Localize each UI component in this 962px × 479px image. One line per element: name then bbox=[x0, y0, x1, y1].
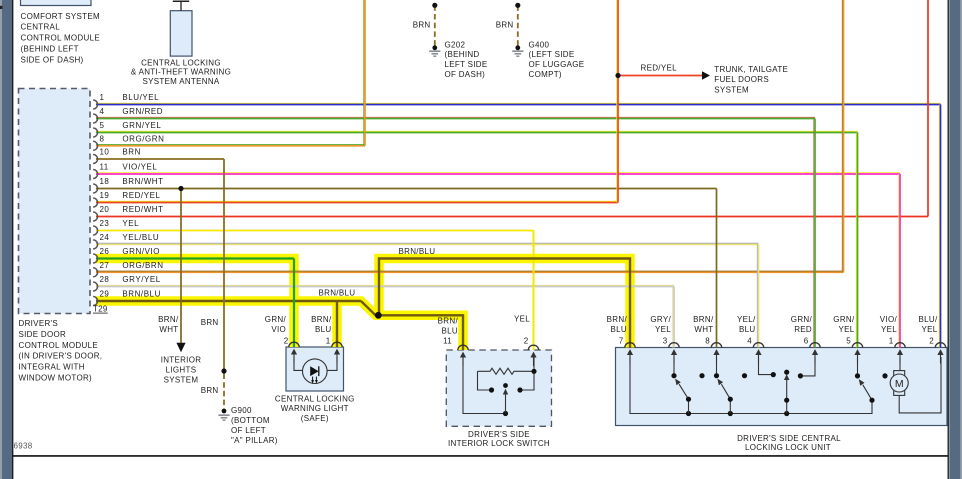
svg-text:DRIVER'S: DRIVER'S bbox=[19, 319, 59, 328]
svg-text:COMFORT SYSTEM: COMFORT SYSTEM bbox=[21, 12, 101, 21]
svg-text:2: 2 bbox=[929, 337, 934, 346]
svg-text:SIDE OF DASH): SIDE OF DASH) bbox=[21, 55, 84, 64]
svg-text:6938: 6938 bbox=[14, 442, 33, 451]
svg-text:SYSTEM: SYSTEM bbox=[714, 86, 749, 95]
svg-text:BLU: BLU bbox=[442, 327, 458, 336]
svg-text:19: 19 bbox=[100, 191, 110, 200]
svg-text:BRN: BRN bbox=[122, 148, 141, 157]
svg-text:18: 18 bbox=[100, 177, 110, 186]
svg-text:RED/YEL: RED/YEL bbox=[122, 191, 160, 200]
svg-text:1: 1 bbox=[889, 337, 894, 346]
svg-text:BRN/BLU: BRN/BLU bbox=[319, 288, 356, 297]
svg-text:SYSTEM: SYSTEM bbox=[164, 376, 199, 385]
svg-text:(BEHIND: (BEHIND bbox=[445, 50, 480, 59]
svg-text:INTERIOR: INTERIOR bbox=[161, 356, 202, 365]
svg-text:11: 11 bbox=[100, 163, 109, 172]
svg-text:G900: G900 bbox=[231, 406, 252, 415]
svg-text:OF LEFT: OF LEFT bbox=[231, 426, 266, 435]
svg-text:OF DASH): OF DASH) bbox=[445, 70, 486, 79]
svg-text:GRN/: GRN/ bbox=[833, 315, 855, 324]
svg-text:GRN/: GRN/ bbox=[265, 315, 287, 324]
svg-text:RED/WHT: RED/WHT bbox=[122, 205, 163, 214]
svg-text:8: 8 bbox=[705, 337, 710, 346]
svg-text:6: 6 bbox=[804, 337, 809, 346]
svg-text:COMPT): COMPT) bbox=[529, 70, 562, 79]
svg-text:10: 10 bbox=[100, 148, 110, 157]
svg-text:CENTRAL LOCKING: CENTRAL LOCKING bbox=[275, 394, 355, 403]
svg-text:BRN/: BRN/ bbox=[438, 317, 459, 326]
svg-text:1: 1 bbox=[326, 337, 331, 346]
svg-text:WARNING LIGHT: WARNING LIGHT bbox=[281, 404, 349, 413]
svg-text:SIDE DOOR: SIDE DOOR bbox=[19, 330, 67, 339]
svg-text:BRN/WHT: BRN/WHT bbox=[122, 177, 163, 186]
svg-text:BRN: BRN bbox=[201, 386, 219, 395]
svg-text:BRN/BLU: BRN/BLU bbox=[399, 247, 436, 256]
svg-text:YEL/BLU: YEL/BLU bbox=[122, 233, 159, 242]
svg-text:RED/YEL: RED/YEL bbox=[641, 63, 678, 72]
svg-text:GRY/: GRY/ bbox=[650, 315, 671, 324]
svg-text:(IN DRIVER'S DOOR,: (IN DRIVER'S DOOR, bbox=[19, 352, 103, 361]
svg-text:BRN/: BRN/ bbox=[607, 315, 628, 324]
svg-text:GRY/YEL: GRY/YEL bbox=[122, 275, 160, 284]
svg-text:BRN: BRN bbox=[201, 318, 219, 327]
svg-text:VIO/: VIO/ bbox=[880, 315, 898, 324]
svg-text:BRN: BRN bbox=[496, 20, 514, 29]
svg-text:BRN/: BRN/ bbox=[158, 315, 179, 324]
svg-text:(BOTTOM: (BOTTOM bbox=[231, 416, 270, 425]
svg-text:YEL: YEL bbox=[514, 314, 530, 323]
svg-text:BLU: BLU bbox=[739, 325, 755, 334]
svg-text:GRN/VIO: GRN/VIO bbox=[122, 247, 160, 256]
svg-text:WHT: WHT bbox=[694, 325, 713, 334]
svg-text:VIO: VIO bbox=[271, 325, 286, 334]
svg-text:GRN/RED: GRN/RED bbox=[122, 107, 163, 116]
svg-text:YEL/: YEL/ bbox=[737, 315, 756, 324]
svg-text:& ANTI-THEFT WARNING: & ANTI-THEFT WARNING bbox=[131, 68, 231, 77]
svg-text:11: 11 bbox=[443, 337, 452, 346]
svg-text:LOCKING LOCK UNIT: LOCKING LOCK UNIT bbox=[745, 443, 831, 452]
svg-text:INTEGRAL WITH: INTEGRAL WITH bbox=[19, 363, 85, 372]
svg-text:BRN/BLU: BRN/BLU bbox=[122, 290, 161, 299]
svg-text:5: 5 bbox=[100, 121, 105, 130]
svg-text:3: 3 bbox=[663, 337, 668, 346]
svg-text:INTERIOR LOCK SWITCH: INTERIOR LOCK SWITCH bbox=[448, 439, 550, 448]
svg-text:8: 8 bbox=[100, 134, 105, 143]
svg-text:YEL: YEL bbox=[122, 219, 139, 228]
svg-text:YEL: YEL bbox=[838, 325, 854, 334]
svg-text:24: 24 bbox=[100, 233, 110, 242]
svg-text:(BEHIND LEFT: (BEHIND LEFT bbox=[21, 45, 79, 54]
svg-text:T29: T29 bbox=[93, 305, 108, 314]
svg-text:BLU: BLU bbox=[315, 325, 331, 334]
svg-text:WINDOW MOTOR): WINDOW MOTOR) bbox=[19, 374, 93, 383]
svg-text:23: 23 bbox=[100, 219, 110, 228]
svg-text:1: 1 bbox=[100, 93, 105, 102]
svg-text:29: 29 bbox=[100, 290, 110, 299]
svg-text:4: 4 bbox=[747, 337, 752, 346]
svg-text:GRN/YEL: GRN/YEL bbox=[122, 121, 161, 130]
svg-text:CONTROL MODULE: CONTROL MODULE bbox=[21, 34, 100, 43]
svg-text:2: 2 bbox=[284, 337, 289, 346]
svg-text:27: 27 bbox=[100, 261, 110, 270]
svg-text:CENTRAL LOCKING: CENTRAL LOCKING bbox=[141, 58, 221, 67]
svg-text:20: 20 bbox=[100, 205, 110, 214]
svg-text:YEL: YEL bbox=[881, 325, 897, 334]
svg-text:BRN/: BRN/ bbox=[311, 315, 332, 324]
svg-text:26: 26 bbox=[100, 247, 110, 256]
svg-text:YEL: YEL bbox=[655, 325, 671, 334]
svg-text:BRN/: BRN/ bbox=[693, 315, 714, 324]
svg-text:ORG/GRN: ORG/GRN bbox=[122, 134, 164, 143]
svg-text:BRN: BRN bbox=[413, 20, 431, 29]
svg-text:BLU: BLU bbox=[611, 325, 627, 334]
svg-text:BLU/YEL: BLU/YEL bbox=[122, 93, 159, 102]
svg-text:GRN/: GRN/ bbox=[791, 315, 813, 324]
svg-text:BLU/: BLU/ bbox=[919, 315, 938, 324]
svg-text:DRIVER'S SIDE CENTRAL: DRIVER'S SIDE CENTRAL bbox=[737, 434, 841, 443]
svg-text:ORG/BRN: ORG/BRN bbox=[122, 261, 163, 270]
svg-text:FUEL DOORS: FUEL DOORS bbox=[714, 75, 769, 84]
svg-text:28: 28 bbox=[100, 275, 110, 284]
svg-text:G400: G400 bbox=[529, 40, 550, 49]
svg-text:(SAFE): (SAFE) bbox=[301, 414, 329, 423]
svg-text:RED: RED bbox=[794, 325, 812, 334]
svg-text:"A" PILLAR): "A" PILLAR) bbox=[231, 436, 278, 445]
svg-text:5: 5 bbox=[846, 337, 851, 346]
svg-text:VIO/YEL: VIO/YEL bbox=[122, 163, 157, 172]
svg-text:7: 7 bbox=[619, 337, 624, 346]
svg-text:G202: G202 bbox=[445, 40, 466, 49]
svg-text:LEFT SIDE: LEFT SIDE bbox=[445, 60, 488, 69]
svg-text:OF LUGGAGE: OF LUGGAGE bbox=[529, 60, 585, 69]
svg-text:CONTROL MODULE: CONTROL MODULE bbox=[19, 341, 98, 350]
svg-text:TRUNK, TAILGATE: TRUNK, TAILGATE bbox=[714, 65, 788, 74]
svg-text:YEL: YEL bbox=[921, 325, 937, 334]
svg-text:(LEFT SIDE: (LEFT SIDE bbox=[529, 50, 575, 59]
svg-text:WHT: WHT bbox=[159, 325, 178, 334]
svg-text:4: 4 bbox=[100, 107, 105, 116]
svg-text:M: M bbox=[895, 378, 904, 390]
svg-text:2: 2 bbox=[524, 337, 529, 346]
svg-text:SYSTEM ANTENNA: SYSTEM ANTENNA bbox=[142, 77, 219, 86]
svg-text:DRIVER'S SIDE: DRIVER'S SIDE bbox=[468, 430, 530, 439]
svg-text:CENTRAL: CENTRAL bbox=[21, 23, 61, 32]
svg-text:LIGHTS: LIGHTS bbox=[166, 366, 197, 375]
